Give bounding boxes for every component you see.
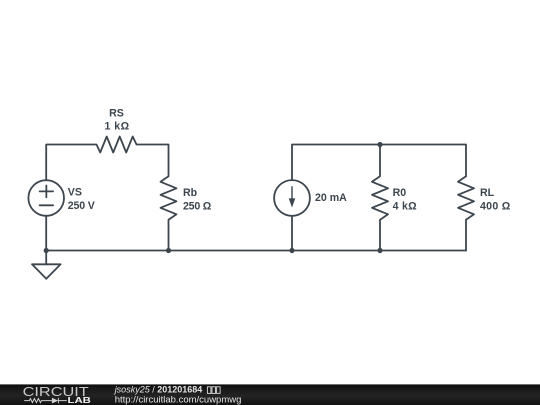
svg-text:jsosky25 / 201201684: jsosky25 / 201201684	[114, 385, 203, 395]
svg-text:20 mA: 20 mA	[315, 192, 347, 204]
svg-text:RL: RL	[480, 187, 495, 199]
svg-text:R0: R0	[393, 187, 407, 199]
svg-text:VS: VS	[68, 186, 82, 198]
svg-text:250 Ω: 250 Ω	[183, 201, 212, 213]
svg-text:RS: RS	[109, 108, 124, 120]
svg-text:LAB: LAB	[68, 396, 92, 405]
svg-text:250 V: 250 V	[68, 200, 95, 212]
svg-text:400 Ω: 400 Ω	[480, 201, 511, 213]
svg-text:Rb: Rb	[183, 187, 198, 199]
svg-text:1 kΩ: 1 kΩ	[105, 121, 130, 133]
svg-text:4 kΩ: 4 kΩ	[393, 201, 418, 213]
svg-text:http://circuitlab.com/cuwpmwg: http://circuitlab.com/cuwpmwg	[115, 395, 242, 405]
